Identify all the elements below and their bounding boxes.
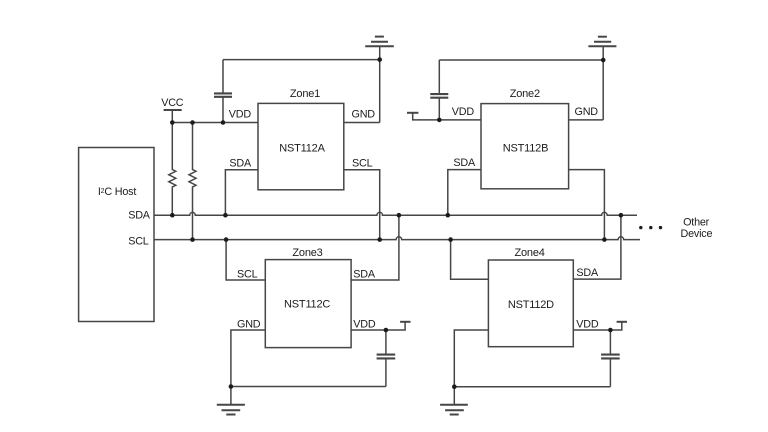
svg-text:NST112A: NST112A xyxy=(279,142,325,154)
svg-text:SDA: SDA xyxy=(229,157,252,169)
svg-text:SCL: SCL xyxy=(237,268,258,280)
svg-text:NST112B: NST112B xyxy=(503,142,548,154)
svg-text:GND: GND xyxy=(575,106,599,118)
VDD rail (VCC to NST112A) xyxy=(172,122,258,124)
wire NST112C GND pin xyxy=(231,330,265,387)
wire cap C1 to ground (top) xyxy=(223,59,380,61)
ground (Zone3 bottom) xyxy=(230,387,232,405)
svg-text:SCL: SCL xyxy=(128,236,149,248)
wire NST112B GND pin xyxy=(569,119,604,121)
ellipsis (bus continues) xyxy=(639,226,662,229)
wire NST112C SDA pin xyxy=(351,215,399,280)
ground (Zone2 top) xyxy=(602,46,604,120)
wire NST112A SDA pin xyxy=(225,170,258,215)
svg-text:SDA: SDA xyxy=(453,157,476,169)
I2C Host box xyxy=(79,148,154,322)
wire NST112D GND pin xyxy=(454,330,488,387)
svg-text:Other: Other xyxy=(683,217,710,229)
capacitor C1 (Zone1 bypass) xyxy=(222,60,224,94)
svg-text:SDA: SDA xyxy=(128,209,151,221)
SCL bus xyxy=(154,237,640,240)
wire Zone3 ground return xyxy=(231,386,386,388)
capacitor C4 (Zone4 bypass) xyxy=(609,330,611,354)
NST112C box xyxy=(265,260,351,348)
svg-text:VDD: VDD xyxy=(229,108,252,120)
svg-text:Zone1: Zone1 xyxy=(290,88,320,100)
wire NST112B SDA pin xyxy=(448,170,481,216)
wire NST112D VDD pin xyxy=(573,323,622,331)
svg-text:SDA: SDA xyxy=(353,268,376,280)
svg-text:SDA: SDA xyxy=(576,267,599,279)
svg-text:Zone3: Zone3 xyxy=(292,247,322,259)
wire NST112C SCL pin xyxy=(226,240,265,280)
SDA bus xyxy=(154,212,637,215)
NST112A box xyxy=(258,103,344,189)
svg-text:VDD: VDD xyxy=(353,318,376,330)
svg-text:NST112D: NST112D xyxy=(508,299,554,311)
wire NST112D SDA pin xyxy=(573,215,621,279)
svg-text:Zone2: Zone2 xyxy=(510,88,540,100)
svg-text:VCC: VCC xyxy=(161,97,184,109)
svg-text:I2C Host: I2C Host xyxy=(98,186,137,198)
svg-text:GND: GND xyxy=(237,318,261,330)
ground (Zone1 top) xyxy=(379,46,381,122)
wire cap C2 to ground (top) xyxy=(439,59,603,61)
supply tap (Zone3 VDD) xyxy=(400,321,410,323)
NST112D box xyxy=(488,260,573,347)
svg-text:SCL: SCL xyxy=(352,157,373,169)
svg-text:Device: Device xyxy=(680,228,712,240)
wire Zone4 ground return xyxy=(454,386,610,388)
wire NST112A SCL pin xyxy=(344,170,380,240)
wire NST112D SCL pin xyxy=(451,240,489,280)
wire NST112C VDD pin xyxy=(351,323,405,331)
resistor pull-up on SCL xyxy=(189,123,196,240)
ground (Zone4 bottom) xyxy=(453,387,455,405)
NST112B box xyxy=(481,104,569,189)
wire NST112B SCL pin xyxy=(569,170,605,240)
wire NST112A GND pin xyxy=(344,122,380,124)
svg-text:NST112C: NST112C xyxy=(284,299,330,311)
capacitor C2 (Zone2 bypass) xyxy=(438,60,440,94)
svg-text:Zone4: Zone4 xyxy=(514,247,544,259)
svg-text:GND: GND xyxy=(352,108,376,120)
capacitor C3 (Zone3 bypass) xyxy=(385,330,387,354)
supply tap (Zone4 VDD) xyxy=(617,321,627,323)
supply tap (Zone2 VDD) xyxy=(413,113,481,120)
svg-text:VDD: VDD xyxy=(576,318,599,330)
resistor pull-up on SDA xyxy=(169,123,176,216)
svg-text:VDD: VDD xyxy=(452,106,475,118)
VCC symbol xyxy=(164,109,182,111)
